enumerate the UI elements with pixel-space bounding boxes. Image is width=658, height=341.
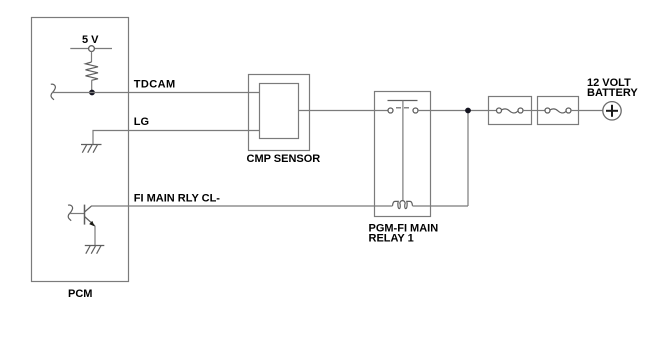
svg-text:CMP SENSOR: CMP SENSOR (247, 153, 321, 165)
node junction TDCAM (89, 90, 95, 96)
PCM box (32, 18, 129, 282)
wire break squiggle (transistor base) (68, 205, 73, 221)
fuse 2 element (538, 108, 579, 113)
wire relay coil to riser (413, 205, 469, 207)
FI MAIN RLY CL- label (134, 193, 221, 205)
ground (emitter) (85, 246, 105, 254)
wire riser coil to bus (467, 111, 469, 207)
ground (LG, inside PCM) (81, 145, 102, 153)
5V supply terminal (70, 46, 112, 52)
node junction at bus (465, 108, 471, 114)
fuse 1 box (489, 97, 532, 125)
svg-text:PCM: PCM (68, 288, 92, 300)
wire LG (93, 131, 260, 145)
relay coil (393, 201, 413, 209)
transistor Q (driver, NPN) (85, 205, 96, 227)
svg-text:FI MAIN RLY CL-: FI MAIN RLY CL- (134, 193, 221, 205)
wire resistor to node (91, 80, 93, 92)
PCM label (68, 288, 92, 300)
svg-text:LG: LG (134, 116, 149, 128)
relay link (armature to coil) (402, 101, 404, 201)
wire relay contact to junction and fuse (418, 110, 489, 112)
5V supply label (82, 34, 99, 46)
wire 5V to resistor (91, 52, 93, 63)
LG label (134, 116, 149, 128)
relay contact terminal left (388, 108, 393, 113)
wire between fuses (532, 110, 538, 112)
relay mechanical link dashes (396, 107, 410, 109)
wire emitter to ground (94, 226, 96, 246)
svg-text:5 V: 5 V (82, 34, 99, 46)
wire FI MAIN RLY CL- (91, 205, 393, 207)
relay armature bar (388, 100, 418, 102)
CMP sensor outer box (249, 75, 310, 151)
wire base (70, 213, 85, 215)
wire fuse 2 to battery (579, 110, 603, 112)
wire TDCAM (52, 92, 259, 94)
CMP SENSOR label (247, 153, 321, 165)
battery positive terminal (603, 102, 621, 120)
wire break squiggle (TDCAM) (51, 84, 56, 100)
wire CMP output to relay contact (299, 110, 389, 112)
relay contact terminal right (413, 108, 418, 113)
svg-text:BATTERY: BATTERY (587, 87, 638, 99)
fuse 2 box (538, 97, 579, 125)
fuse 1 element (489, 108, 532, 113)
PGM-FI main relay 1 box (375, 92, 431, 217)
12 VOLT BATTERY label (587, 77, 638, 99)
svg-text:RELAY 1: RELAY 1 (369, 233, 414, 245)
TDCAM label (134, 78, 176, 90)
svg-text:TDCAM: TDCAM (134, 78, 176, 90)
PGM-FI MAIN RELAY 1 label (369, 223, 439, 245)
CMP sensor inner box (260, 84, 299, 139)
resistor (pull-up) (86, 62, 99, 80)
